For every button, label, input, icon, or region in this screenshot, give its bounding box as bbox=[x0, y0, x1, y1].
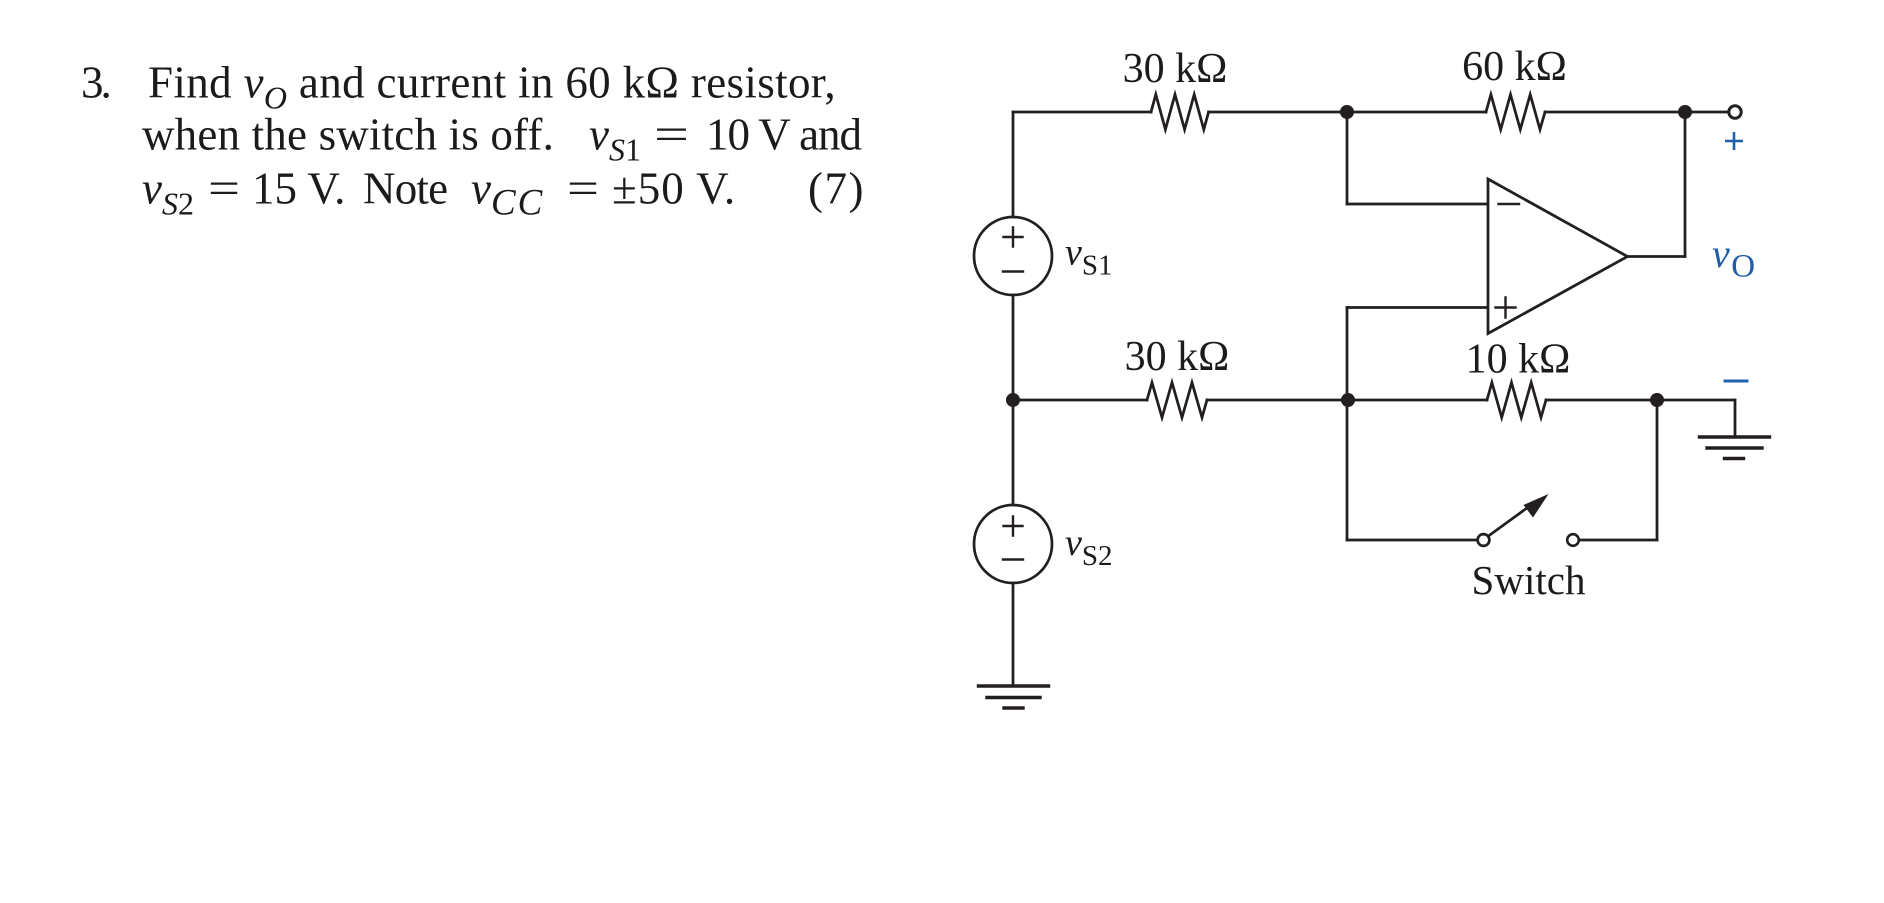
svg-text:±50 V.: ±50 V. bbox=[612, 164, 736, 214]
wire node A down to inverting input bbox=[1346, 112, 1349, 204]
wire node B to output terminal bbox=[1685, 111, 1729, 114]
svg-text:vS2: vS2 bbox=[142, 164, 194, 222]
ground G1 below VS2 bbox=[979, 686, 1049, 708]
svg-text:vS1: vS1 bbox=[589, 110, 641, 168]
op-amp minus label bbox=[1499, 203, 1520, 205]
VS2 minus sign bbox=[1003, 558, 1023, 560]
svg-text:10 kΩ: 10 kΩ bbox=[1466, 337, 1571, 383]
output terminal open circle bbox=[1729, 106, 1741, 118]
wire node E to right ground corner bbox=[1657, 399, 1735, 402]
wire noninverting input horizontal bbox=[1347, 306, 1488, 309]
svg-text:Note: Note bbox=[363, 164, 447, 214]
switch left contact open circle bbox=[1478, 534, 1490, 546]
svg-text:(7): (7) bbox=[808, 164, 865, 214]
wire node D down to switch bbox=[1346, 400, 1349, 540]
wire op-amp output bbox=[1628, 255, 1686, 258]
resistor R2 60 kOhm top zigzag bbox=[1486, 95, 1545, 130]
output plus polarity blue bbox=[1725, 132, 1743, 150]
source VS2 circle bbox=[974, 505, 1052, 583]
junction node A dot bbox=[1340, 105, 1354, 119]
junction node B dot bbox=[1678, 105, 1692, 119]
svg-text:vCC: vCC bbox=[471, 164, 544, 224]
ground G2 right bbox=[1700, 437, 1770, 459]
svg-text:30 kΩ: 30 kΩ bbox=[1123, 46, 1228, 92]
switch right contact open circle bbox=[1567, 534, 1579, 546]
wire node D to R4 bbox=[1348, 399, 1487, 402]
wire vs1 top lead bbox=[1012, 112, 1015, 217]
wire switch right horizontal bbox=[1579, 539, 1657, 542]
source VS1 circle bbox=[974, 217, 1052, 295]
svg-text:when the switch is off.: when the switch is off. bbox=[142, 110, 554, 160]
VS1 minus sign bbox=[1003, 270, 1023, 272]
switch arm bbox=[1489, 507, 1529, 536]
resistor R4 10 kOhm zigzag bbox=[1487, 383, 1546, 418]
VS2 plus sign bbox=[1004, 517, 1023, 536]
svg-text:60 kΩ: 60 kΩ bbox=[1462, 44, 1567, 90]
svg-text:10 V and: 10 V and bbox=[706, 110, 861, 160]
switch arm arrowhead bbox=[1524, 494, 1549, 518]
svg-text:30 kΩ: 30 kΩ bbox=[1125, 334, 1230, 380]
wire inverting input horizontal bbox=[1347, 203, 1488, 206]
wire right ground stub bbox=[1734, 400, 1737, 437]
output minus polarity blue bbox=[1724, 380, 1749, 383]
wire noninverting input down to node D bbox=[1346, 308, 1349, 401]
wire vs1 bottom lead to node C bbox=[1012, 295, 1015, 400]
wire node A to R2 bbox=[1347, 111, 1486, 114]
op-amp U1 triangle bbox=[1488, 179, 1628, 334]
svg-text:vO: vO bbox=[1712, 231, 1755, 285]
svg-text:vS1: vS1 bbox=[1065, 232, 1113, 282]
op-amp plus label bbox=[1496, 298, 1516, 318]
wire node E down to switch right bbox=[1656, 400, 1659, 540]
junction node D dot bbox=[1341, 393, 1355, 407]
resistor R1 30 kOhm top-left zigzag bbox=[1151, 95, 1209, 130]
svg-text:vS2: vS2 bbox=[1065, 522, 1113, 572]
VS1 plus sign bbox=[1004, 228, 1023, 247]
svg-text:Switch: Switch bbox=[1472, 557, 1586, 603]
junction node C dot bbox=[1006, 393, 1020, 407]
svg-text:=: = bbox=[567, 164, 599, 214]
svg-text:=: = bbox=[654, 110, 689, 160]
wire output up to node B bbox=[1684, 112, 1687, 257]
wire vs2 to ground bbox=[1012, 583, 1015, 686]
resistor R3 30 kOhm bottom zigzag bbox=[1147, 383, 1207, 418]
wire node C to R3 bbox=[1013, 399, 1147, 402]
junction node E dot bbox=[1650, 393, 1664, 407]
svg-text:=: = bbox=[208, 164, 240, 214]
wire R2 to node B bbox=[1545, 111, 1685, 114]
svg-text:3.: 3. bbox=[81, 58, 110, 108]
wire R3 to node D bbox=[1207, 399, 1348, 402]
wire switch left horizontal bbox=[1347, 539, 1478, 542]
svg-text:Find vO and current in 60 kΩ r: Find vO and current in 60 kΩ resistor, bbox=[148, 58, 836, 116]
svg-text:15 V.: 15 V. bbox=[252, 164, 345, 214]
wire R1 to node A bbox=[1209, 111, 1347, 114]
wire node C down to vs2 bbox=[1012, 400, 1015, 505]
wire top-left horizontal bbox=[1013, 111, 1151, 114]
wire R4 to node E bbox=[1546, 399, 1657, 402]
